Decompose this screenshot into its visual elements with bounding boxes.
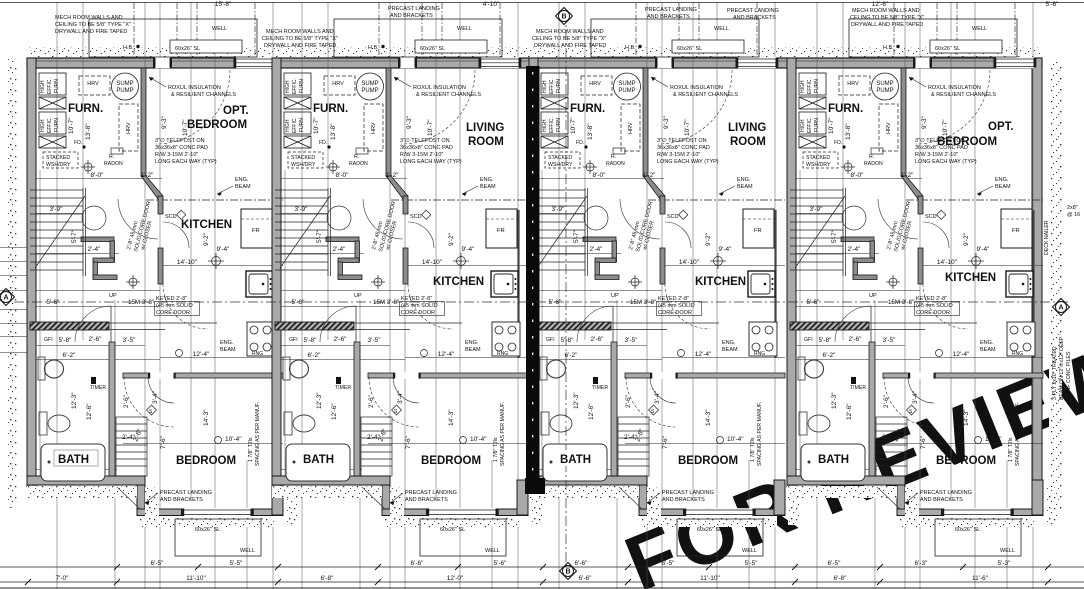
bottom dim row 1: [0, 566, 1084, 568]
svg-text:A: A: [3, 295, 8, 302]
svg-text:6'-5": 6'-5": [828, 560, 842, 567]
svg-text:CEILING TO BE 5/8" TYPE "X": CEILING TO BE 5/8" TYPE "X": [262, 36, 338, 42]
svg-text:AND BRACKETS: AND BRACKETS: [390, 13, 433, 19]
svg-text:6'-5": 6'-5": [662, 560, 676, 567]
svg-text:11'-6": 11'-6": [972, 575, 989, 582]
mech room notes: [55, 8, 924, 49]
svg-text:LIVING: LIVING: [728, 122, 766, 134]
top dimension line: [0, 2, 1084, 4]
svg-text:5'-3": 5'-3": [998, 560, 1012, 567]
svg-text:DECK NAILER: DECK NAILER: [1044, 220, 1050, 255]
svg-text:MECH ROOM WALLS AND: MECH ROOM WALLS AND: [266, 29, 334, 35]
section cut line B vertical: [565, 12, 567, 575]
center party wall black: [526, 66, 540, 481]
svg-text:DRYWALL AND FIRE TAPED: DRYWALL AND FIRE TAPED: [534, 43, 606, 49]
stipple strip top: [27, 47, 1042, 57]
dim ticks row1: [114, 564, 1051, 570]
bath bedroom labels: [54, 450, 996, 467]
left margin dim lines: [0, 248, 27, 353]
svg-text:CELING TO BE 5/8" TYPE "X": CELING TO BE 5/8" TYPE "X": [532, 36, 606, 42]
top exterior wall: [27, 58, 1042, 68]
svg-text:A: A: [1058, 305, 1063, 312]
stipple strip right: [1049, 60, 1062, 510]
svg-text:6'-3": 6'-3": [915, 560, 929, 567]
svg-text:B: B: [561, 14, 566, 21]
svg-text:5'-5": 5'-5": [230, 560, 244, 567]
svg-text:BATH: BATH: [58, 454, 89, 466]
svg-text:BATH: BATH: [818, 454, 849, 466]
dim ticks row2: [25, 579, 1051, 585]
svg-text:MECH ROOM WALLS AND: MECH ROOM WALLS AND: [55, 15, 123, 21]
svg-text:12'-0": 12'-0": [447, 575, 464, 582]
marker B top: [556, 8, 573, 25]
svg-text:6'-5": 6'-5": [151, 560, 165, 567]
svg-text:ROOM: ROOM: [730, 136, 766, 148]
svg-text:REINF CONC PILES: REINF CONC PILES: [1066, 351, 1072, 400]
svg-text:BEDROOM: BEDROOM: [937, 136, 997, 148]
right exterior wall: [1032, 58, 1042, 515]
section cut line A horizontal: [14, 301, 1070, 303]
precast notes top: [388, 6, 779, 21]
svg-text:BATH: BATH: [560, 454, 591, 466]
svg-text:11'-10": 11'-10": [700, 575, 720, 582]
svg-text:CELING TO BE 5/8" TYPE "X": CELING TO BE 5/8" TYPE "X": [850, 15, 924, 21]
svg-text:BEAM ON 12"∅x12" DEEP: BEAM ON 12"∅x12" DEEP: [1059, 336, 1065, 400]
svg-text:BEDROOM: BEDROOM: [176, 455, 236, 467]
svg-text:PRECAST LANDING: PRECAST LANDING: [388, 6, 440, 12]
svg-text:KITCHEN: KITCHEN: [695, 276, 746, 288]
svg-text:DRYWALL AND FIRE TAPED: DRYWALL AND FIRE TAPED: [264, 43, 336, 49]
bottom dim row 3 partial: [0, 587, 1084, 589]
svg-text:15'-8": 15'-8": [215, 1, 232, 8]
unit 1: [27, 2, 297, 589]
unit 2: [272, 2, 542, 589]
svg-text:CEILING TO BE 5/8" TYPE "X": CEILING TO BE 5/8" TYPE "X": [55, 22, 131, 28]
room labels: [181, 105, 1014, 288]
svg-text:AND BRACKETS: AND BRACKETS: [647, 14, 690, 20]
svg-text:BEDROOM: BEDROOM: [936, 455, 996, 467]
unit 4: [787, 2, 1057, 589]
svg-text:AND BRACKETS: AND BRACKETS: [733, 15, 776, 21]
svg-text:12'-6": 12'-6": [872, 1, 889, 8]
svg-text:BATH: BATH: [303, 454, 334, 466]
svg-text:KITCHEN: KITCHEN: [433, 276, 484, 288]
svg-text:3-PLY 2x10" TREATED: 3-PLY 2x10" TREATED: [1052, 346, 1058, 400]
svg-text:2x8": 2x8": [1067, 205, 1078, 211]
svg-text:KITCHEN: KITCHEN: [945, 272, 996, 284]
svg-text:PRECAST LANDING: PRECAST LANDING: [727, 8, 779, 14]
svg-text:OPT.: OPT.: [223, 105, 249, 117]
stipple strip left: [8, 58, 17, 508]
svg-text:6'-8": 6'-8": [834, 575, 848, 582]
marker B bottom: [560, 563, 577, 580]
svg-text:B: B: [565, 569, 570, 576]
svg-text:KITCHEN: KITCHEN: [181, 219, 232, 231]
svg-text:MECH ROOM WALLS AND: MECH ROOM WALLS AND: [536, 29, 604, 35]
svg-text:BEDROOM: BEDROOM: [678, 455, 738, 467]
svg-text:BEDROOM: BEDROOM: [187, 119, 247, 131]
marker A left: [0, 289, 14, 306]
svg-text:DRYWALL AND FIRE TAPED: DRYWALL AND FIRE TAPED: [55, 29, 127, 35]
svg-text:6'-6": 6'-6": [411, 560, 425, 567]
svg-text:ROOM: ROOM: [468, 136, 504, 148]
svg-text:4'-10": 4'-10": [483, 1, 500, 8]
bottom dim row 2: [0, 581, 1084, 583]
svg-text:OPT.: OPT.: [988, 121, 1014, 133]
unit 3: [529, 2, 799, 589]
svg-text:6'-6": 6'-6": [579, 575, 593, 582]
svg-text:6'-8": 6'-8": [321, 575, 335, 582]
svg-text:6'-6": 6'-6": [575, 560, 589, 567]
svg-text:BEDROOM: BEDROOM: [421, 455, 481, 467]
svg-text:LIVING: LIVING: [466, 122, 504, 134]
marker A right: [1053, 299, 1070, 316]
svg-text:5'-6": 5'-6": [1046, 1, 1060, 8]
svg-text:@ 16: @ 16: [1067, 212, 1080, 218]
svg-text:7'-0": 7'-0": [56, 575, 70, 582]
svg-text:PRECAST LANDING: PRECAST LANDING: [645, 7, 697, 13]
svg-text:DRYWALL AND FIRE TAPED: DRYWALL AND FIRE TAPED: [851, 22, 923, 28]
svg-text:11'-10": 11'-10": [186, 575, 206, 582]
svg-text:MECH ROOM WALLS AND: MECH ROOM WALLS AND: [852, 8, 920, 14]
svg-text:5'-5": 5'-5": [745, 560, 759, 567]
svg-text:5'-6": 5'-6": [494, 560, 508, 567]
